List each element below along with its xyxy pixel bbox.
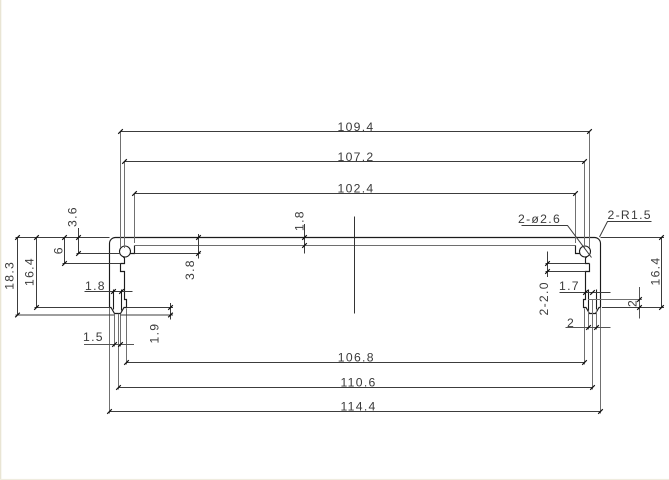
left extension: foot bottom extended left (35, 307, 110, 309)
left foot bottom with chamfered tip (110, 264, 127, 314)
right corner arc R1.5 (595, 238, 601, 244)
extension: circle slot line extended left for dim 3.6 (77, 253, 121, 255)
faint scan edge bottom (0, 479, 669, 480)
svg-text:1.9: 1.9 (148, 323, 162, 344)
top plate inner surface (135, 245, 576, 247)
extension: hook bottom extended left for dim 6 (63, 263, 121, 265)
extension: boss bottom extended right for dim 3.8 (135, 253, 201, 255)
svg-text:1.5: 1.5 (83, 330, 104, 344)
dimension 1.7 line (560, 292, 611, 294)
dimension 18.3 line (17, 238, 19, 316)
vertical centerline (354, 217, 356, 314)
dimension 109.4 line (121, 131, 590, 133)
dimension 107.2 line (125, 161, 585, 163)
svg-text:2-ø2.6: 2-ø2.6 (518, 212, 561, 226)
svg-text:3.8: 3.8 (183, 259, 197, 280)
dimension 6 line (64, 238, 66, 264)
left boss bottom and step (130, 246, 134, 254)
profile top surface (116, 237, 595, 239)
right foot bottom with chamfered tip (584, 264, 601, 314)
extension lines for dim 2-2.0 (546, 263, 586, 265)
left extension: foot tip extended left (16, 314, 115, 316)
extension: right top surface extended right (601, 237, 665, 239)
right boss bottom and step (576, 246, 580, 254)
right inner hook under screw boss (586, 257, 590, 263)
svg-text:6: 6 (51, 246, 65, 254)
svg-text:2: 2 (626, 299, 640, 307)
svg-text:102.4: 102.4 (338, 182, 375, 196)
svg-text:109.4: 109.4 (338, 120, 375, 134)
svg-text:1.7: 1.7 (559, 279, 580, 293)
right screw slot walls (596, 290, 598, 310)
dimension 2-2.0 line (547, 252, 549, 278)
dimension 106.8 line (127, 362, 585, 364)
dimension 16.4 right line (661, 238, 663, 308)
right outer wall (600, 244, 602, 308)
leader for 2-R1.5 (600, 222, 652, 238)
svg-text:106.8: 106.8 (338, 351, 375, 365)
svg-text:114.4: 114.4 (341, 399, 377, 413)
left inner hook under screw boss (121, 257, 125, 263)
svg-text:16.4: 16.4 (649, 257, 663, 286)
dimension 1.8 center (plate thickness) line (304, 224, 306, 254)
dimension 3.6 line (78, 228, 80, 254)
extension: right foot bottom extended right (602, 307, 664, 309)
right screw channel circle o2.6 (580, 246, 591, 257)
faint scan edge left (0, 0, 1, 480)
left screw slot walls (113, 290, 115, 310)
dimension 16.4 left line (36, 238, 38, 308)
svg-text:16.4: 16.4 (23, 257, 37, 286)
extension lines for dim 1.9 (127, 307, 174, 309)
svg-text:3.6: 3.6 (66, 206, 80, 227)
dimension 1.8 left wall line (85, 291, 133, 293)
left outer wall (109, 244, 111, 308)
dimension 2 right bottom line (slot width) (566, 327, 611, 329)
svg-text:2: 2 (567, 316, 575, 330)
svg-text:1.8: 1.8 (293, 210, 307, 231)
leader for 2-o2.6 (522, 226, 592, 258)
svg-text:2-R1.5: 2-R1.5 (608, 208, 652, 222)
svg-text:18.3: 18.3 (3, 261, 17, 290)
svg-text:1.8: 1.8 (85, 279, 106, 293)
left corner arc R1.5 (110, 238, 116, 244)
svg-text:2-2.0: 2-2.0 (537, 281, 551, 315)
dimension 1.5 line (foot tip width) (84, 344, 134, 346)
dimension 3.8 line (198, 234, 200, 259)
dimension 2 right vertical line (639, 287, 641, 319)
dimension 1.9 line (170, 303, 172, 320)
left screw channel circle o2.6 (120, 246, 131, 257)
extension: right ledge extended right for dim 2 (588, 299, 642, 301)
dimension 114.4 line (110, 411, 601, 413)
dimension 110.6 line (119, 387, 593, 389)
left extension: top surface extended left (16, 237, 110, 239)
svg-text:110.6: 110.6 (341, 375, 377, 389)
svg-text:107.2: 107.2 (338, 150, 375, 164)
dimension 102.4 line (135, 193, 576, 195)
